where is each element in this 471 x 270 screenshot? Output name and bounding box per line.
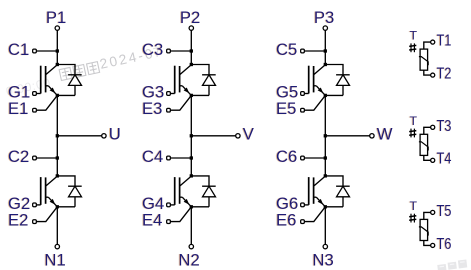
diode D1 (freewheeling)	[57, 65, 81, 96]
terminal C1	[33, 49, 37, 53]
wire gate G6	[304, 204, 308, 206]
svg-text:C2: C2	[8, 147, 29, 166]
wire Q2 emitter to N1	[56, 207, 58, 245]
wire emitter sense E4	[170, 207, 191, 222]
svg-text:W: W	[377, 124, 393, 143]
svg-text:V: V	[243, 124, 255, 143]
wire C3 to rail	[170, 50, 191, 52]
diode D5 (freewheeling)	[325, 65, 349, 96]
svg-text:E6: E6	[276, 211, 296, 230]
wire Q4 emitter to N2	[190, 207, 192, 245]
wire gate G1	[36, 93, 40, 95]
terminal P3	[323, 26, 327, 30]
diode D2 (freewheeling)	[57, 176, 81, 207]
wire emitter sense E2	[36, 207, 57, 222]
junction emitter node Q5	[324, 94, 327, 97]
symbol temperature mark (RT2)	[409, 129, 416, 138]
junction collector node Q6/D6	[324, 174, 327, 177]
terminal C5	[301, 49, 305, 53]
diode D6 (freewheeling)	[325, 176, 349, 207]
transistor Q4 (IGBT)	[175, 176, 192, 207]
wire rail Q5 emitter to Q6 collector	[324, 95, 326, 175]
thermistor RT1 body	[419, 49, 428, 70]
terminal E4	[167, 220, 171, 224]
svg-text:E4: E4	[142, 211, 162, 230]
wire lead T4	[424, 155, 431, 160]
svg-text:P2: P2	[180, 8, 200, 27]
terminal E5	[301, 108, 305, 112]
terminal E2	[33, 220, 37, 224]
svg-text:C5: C5	[276, 40, 297, 59]
terminal G2	[33, 203, 37, 207]
terminal G4	[167, 203, 171, 207]
terminal T1	[431, 40, 435, 44]
svg-text:N3: N3	[312, 250, 333, 269]
svg-text:E1: E1	[8, 99, 28, 118]
junction collector node Q1/D1	[56, 63, 59, 66]
terminal C3	[167, 49, 171, 53]
svg-text:T6: T6	[437, 236, 452, 253]
terminal U	[102, 134, 106, 138]
wire gate G4	[170, 204, 174, 206]
svg-text:T2: T2	[437, 66, 452, 83]
wire gate G3	[170, 93, 174, 95]
junction emitter node Q2	[56, 205, 59, 208]
svg-text:T: T	[410, 114, 418, 128]
junction collector node Q3/D3	[190, 63, 193, 66]
terminal C2	[33, 156, 37, 160]
wire gate G5	[304, 93, 308, 95]
terminal T3	[431, 125, 435, 129]
wire emitter sense E5	[304, 95, 325, 110]
transistor Q3 (IGBT)	[175, 65, 192, 96]
svg-text:E2: E2	[8, 211, 28, 230]
transistor Q5 (IGBT)	[309, 65, 326, 96]
svg-text:C6: C6	[276, 147, 297, 166]
junction output node V	[190, 134, 193, 137]
terminal G1	[33, 92, 37, 96]
svg-text:E3: E3	[142, 99, 162, 118]
transistor Q2 (IGBT)	[41, 176, 58, 207]
terminal T5	[431, 210, 435, 214]
wire lead T1	[424, 42, 431, 49]
transistor Q1 (IGBT)	[41, 65, 58, 96]
junction emitter node Q4	[190, 205, 193, 208]
terminal G5	[301, 92, 305, 96]
wire C1 to rail	[36, 50, 57, 52]
svg-text:T: T	[410, 199, 418, 213]
terminal T4	[431, 158, 435, 162]
terminal W	[370, 134, 374, 138]
watermark fragment bottom right	[437, 259, 467, 270]
svg-text:T3: T3	[437, 118, 452, 135]
wire lead T5	[424, 212, 431, 219]
wire C6 to rail	[304, 157, 325, 159]
svg-text:T: T	[410, 29, 418, 43]
svg-text:P1: P1	[46, 8, 66, 27]
terminal T2	[431, 73, 435, 77]
svg-text:N2: N2	[178, 250, 199, 269]
diode D4 (freewheeling)	[191, 176, 215, 207]
wire emitter sense E3	[170, 95, 191, 110]
wire output U	[57, 135, 101, 137]
svg-text:T4: T4	[437, 151, 452, 168]
terminal P2	[189, 26, 193, 30]
symbol temperature mark (RT1)	[409, 43, 416, 52]
terminal G6	[301, 203, 305, 207]
junction output node W	[324, 134, 327, 137]
junction collector node Q5/D5	[324, 63, 327, 66]
terminal N1	[55, 244, 59, 248]
thermistor RT2 body	[419, 134, 428, 155]
terminal V	[236, 134, 240, 138]
wire C2 to rail	[36, 157, 57, 159]
wire rail Q3 emitter to Q4 collector	[190, 95, 192, 175]
wire lead T3	[424, 127, 431, 134]
svg-text:C3: C3	[142, 40, 163, 59]
wire emitter sense E6	[304, 207, 325, 222]
svg-text:C4: C4	[142, 147, 163, 166]
thermistor RT3 body	[419, 219, 428, 240]
terminal E6	[301, 220, 305, 224]
wire emitter sense E1	[36, 95, 57, 110]
wire P3 to collector node	[324, 30, 326, 64]
junction collector node Q2/D2	[56, 174, 59, 177]
wire output W	[325, 135, 369, 137]
terminal E3	[167, 108, 171, 112]
wire output V	[191, 135, 235, 137]
wire gate G2	[36, 204, 40, 206]
svg-text:N1: N1	[44, 250, 65, 269]
junction C4 node	[190, 156, 193, 159]
junction C5 node	[324, 49, 327, 52]
terminal C6	[301, 156, 305, 160]
wire Q6 emitter to N3	[324, 207, 326, 245]
terminal E1	[33, 108, 37, 112]
svg-text:T5: T5	[437, 203, 452, 220]
junction emitter node Q3	[190, 94, 193, 97]
svg-text:U: U	[109, 124, 121, 143]
junction collector node Q4/D4	[190, 174, 193, 177]
svg-text:P3: P3	[314, 8, 334, 27]
junction C6 node	[324, 156, 327, 159]
terminal N3	[323, 244, 327, 248]
wire rail Q1 emitter to Q2 collector	[56, 95, 58, 175]
diode D3 (freewheeling)	[191, 65, 215, 96]
svg-text:C1: C1	[8, 40, 29, 59]
wire P2 to collector node	[190, 30, 192, 64]
terminal T6	[431, 243, 435, 247]
terminal C4	[167, 156, 171, 160]
svg-text:T1: T1	[437, 33, 452, 50]
watermark	[3, 44, 165, 99]
svg-text:E5: E5	[276, 99, 296, 118]
terminal N2	[189, 244, 193, 248]
junction emitter node Q1	[56, 94, 59, 97]
terminal P1	[55, 26, 59, 30]
junction C3 node	[190, 49, 193, 52]
wire C5 to rail	[304, 50, 325, 52]
junction output node U	[56, 134, 59, 137]
junction C1 node	[56, 49, 59, 52]
symbol temperature mark (RT3)	[409, 214, 416, 223]
junction C2 node	[56, 156, 59, 159]
wire P1 to collector node	[56, 30, 58, 64]
junction emitter node Q6	[324, 205, 327, 208]
transistor Q6 (IGBT)	[309, 176, 326, 207]
wire lead T6	[424, 241, 431, 246]
wire C4 to rail	[170, 157, 191, 159]
wire lead T2	[424, 70, 431, 75]
terminal G3	[167, 92, 171, 96]
